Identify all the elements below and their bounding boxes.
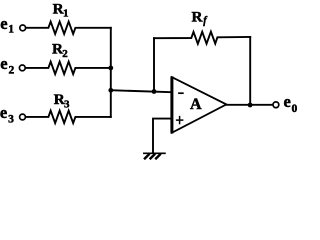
svg-text:2: 2 (62, 48, 68, 60)
svg-text:e: e (0, 103, 7, 122)
svg-text:R: R (192, 8, 204, 25)
svg-text:0: 0 (292, 103, 298, 115)
svg-text:f: f (203, 15, 208, 26)
svg-text:3: 3 (8, 113, 14, 125)
svg-text:2: 2 (9, 64, 15, 76)
svg-text:A: A (190, 96, 202, 113)
svg-text:1: 1 (63, 8, 69, 20)
svg-text:e: e (284, 92, 291, 111)
svg-text:1: 1 (8, 24, 14, 36)
svg-text:3: 3 (64, 99, 70, 111)
svg-text:e: e (0, 54, 7, 73)
svg-text:e: e (0, 14, 7, 33)
